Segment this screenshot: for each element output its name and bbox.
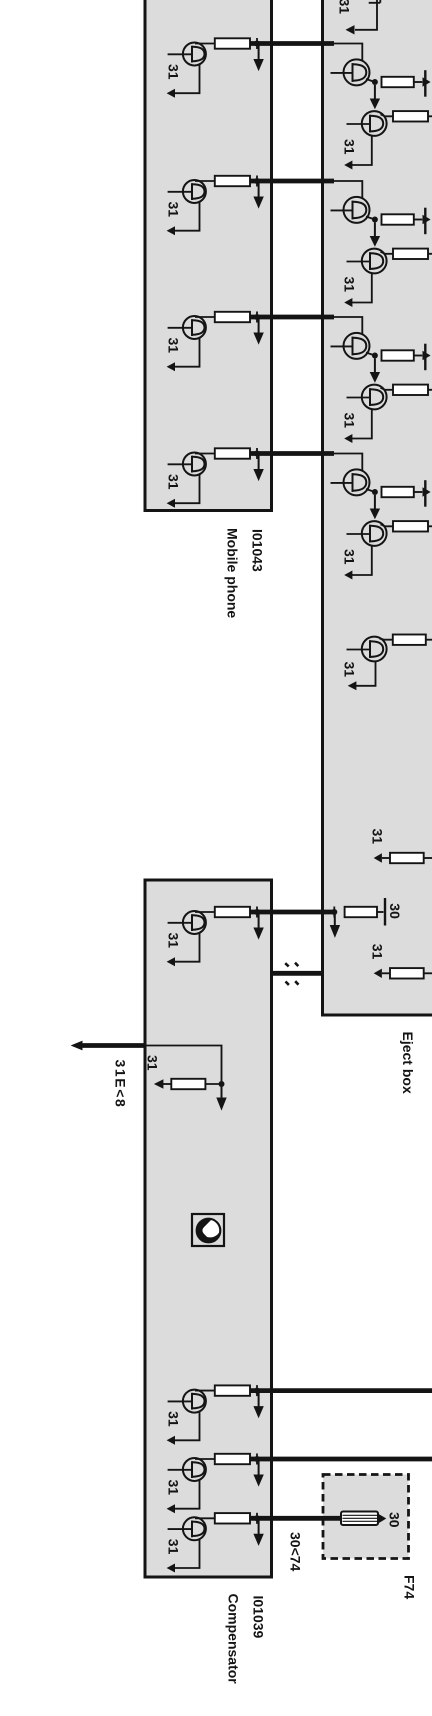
- wire 31E<8 input with arrow: [82, 1043, 145, 1048]
- svg-text:31: 31: [342, 662, 358, 678]
- transistor driver M2 (Mobile phone): [166, 176, 264, 236]
- svg-text:I01043: I01043: [250, 529, 266, 572]
- svg-text:31: 31: [145, 1055, 161, 1071]
- svg-text:Compensator: Compensator: [225, 1594, 241, 1685]
- transistor pair P4 (Eject box): [330, 454, 432, 580]
- junction + arrow + resistor + 30-rail S3 (Eject box): [330, 898, 403, 938]
- resistor to ground 31 S4 (Eject box): [370, 944, 432, 979]
- resistor to ground 31 S2 (Eject box): [370, 829, 432, 864]
- wire bus2: [250, 179, 334, 184]
- transistor driver C3 (Compensator): [166, 1454, 264, 1514]
- transistor driver C2 (Compensator): [166, 1385, 264, 1445]
- svg-text:31: 31: [337, 0, 353, 14]
- wire bus6 compensator to eject: [272, 971, 324, 976]
- transistor pair P3 (Eject box): [330, 317, 432, 443]
- transistor driver C1 (Compensator): [166, 907, 264, 967]
- colon continuation dots at bus6: [285, 963, 298, 985]
- ground arrow 31 on 31E<8 net: [163, 1083, 171, 1085]
- transistor pair P1 (Eject box): [330, 44, 432, 170]
- transistor driver M3 (Mobile phone): [166, 312, 264, 372]
- wire bus4: [250, 451, 334, 456]
- branch arrow down on 31E<8 net: [221, 1086, 223, 1099]
- clipped ground fragment top right: [355, 0, 377, 30]
- wire bus C3 to right edge: [250, 1457, 432, 1462]
- component box I01039 Compensator: [145, 880, 272, 1577]
- fuse box F74 (dashed): [323, 1475, 409, 1559]
- svg-text:Mobile phone: Mobile phone: [224, 528, 240, 618]
- svg-text:30: 30: [387, 1512, 403, 1528]
- wire bus5 compensator to eject: [250, 910, 334, 915]
- resistor on 31E<8 net: [171, 1079, 205, 1089]
- single transistor S1 (Eject box): [342, 635, 432, 691]
- transistor driver M1 (Mobile phone): [166, 38, 264, 98]
- svg-text:I01039: I01039: [251, 1596, 267, 1639]
- svg-text:F74: F74: [402, 1575, 418, 1599]
- svg-text:31E<8: 31E<8: [113, 1060, 129, 1109]
- wire bus C4 to fuse F74: [250, 1516, 341, 1521]
- fuse 30 inside F74: [341, 1512, 378, 1526]
- transistor driver M4 (Mobile phone): [166, 448, 264, 508]
- svg-text:Eject box: Eject box: [400, 1032, 416, 1094]
- wire bus1: [250, 41, 334, 46]
- loudspeaker symbol (Compensator): [192, 1214, 224, 1246]
- component box Eject box: [323, 0, 432, 1015]
- svg-text:30<74: 30<74: [288, 1532, 304, 1572]
- wire inside box from 31E<8: [146, 1046, 222, 1085]
- component box I01043 Mobile phone: [145, 0, 272, 511]
- transistor pair P2 (Eject box): [330, 181, 432, 307]
- svg-text:30: 30: [387, 903, 403, 919]
- wire bus3: [250, 315, 334, 320]
- wire bus C2 to right edge: [250, 1388, 432, 1393]
- transistor driver C4 (Compensator): [166, 1513, 264, 1573]
